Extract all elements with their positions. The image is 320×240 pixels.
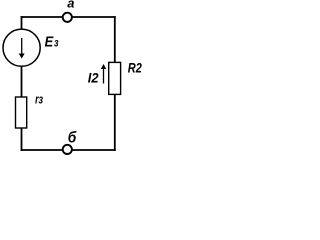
current arrow I2: [103, 68, 105, 84]
resistor R2: [109, 62, 121, 94]
wire left branch: [21, 17, 23, 96]
svg-text:R2: R2: [128, 59, 142, 75]
wire left lower: [21, 127, 23, 150]
node a terminal circle: [63, 13, 72, 22]
node b terminal circle: [63, 145, 72, 154]
resistor r3: [16, 97, 27, 128]
svg-text:з: з: [54, 36, 58, 50]
svg-text:rз: rз: [35, 92, 43, 107]
svg-text:I2: I2: [88, 70, 99, 86]
wire right branch lower: [114, 94, 116, 150]
svg-text:б: б: [68, 129, 77, 146]
wire top: [22, 16, 115, 18]
svg-text:E: E: [45, 33, 54, 50]
EMF arrow inside source: [21, 38, 23, 55]
wire right branch upper: [114, 17, 116, 62]
svg-text:а: а: [67, 0, 74, 11]
wire bottom: [22, 149, 115, 151]
EMF source E3 (circle): [3, 29, 40, 66]
